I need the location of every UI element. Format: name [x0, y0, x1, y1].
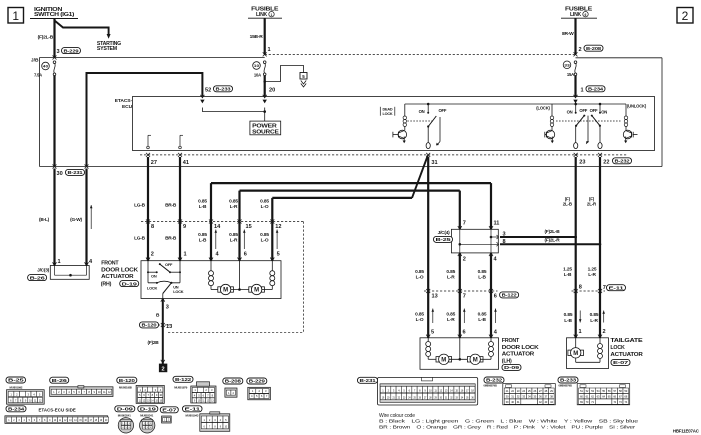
svg-text:30: 30: [57, 171, 63, 177]
svg-text:6: 6: [463, 329, 466, 335]
svg-text:D-09: D-09: [117, 407, 134, 413]
svg-text:M: M: [223, 288, 228, 294]
svg-text:7.5A: 7.5A: [34, 73, 42, 78]
svg-text:2: 2: [162, 366, 165, 372]
svg-text:ACTUATOR: ACTUATOR: [610, 352, 643, 358]
svg-text:J/C(4): J/C(4): [438, 230, 450, 236]
svg-text:B-233: B-233: [216, 87, 231, 93]
svg-text:L-B: L-B: [478, 275, 486, 281]
svg-text:MU801943: MU801943: [186, 414, 199, 418]
svg-text:L-B: L-B: [478, 317, 486, 323]
svg-text:31: 31: [431, 160, 437, 166]
svg-text:B : Black LG : Light green G: B : Black LG : Light green G : Green L :…: [379, 419, 639, 425]
svg-text:15A: 15A: [567, 72, 574, 77]
svg-text:BR-B: BR-B: [165, 202, 177, 208]
svg-text:LOCK: LOCK: [610, 345, 625, 351]
svg-text:3: 3: [166, 305, 169, 311]
svg-text:1: 1: [581, 88, 584, 94]
svg-text:40: 40: [43, 64, 49, 69]
svg-text:0.85: 0.85: [260, 232, 269, 238]
svg-text:MU801985: MU801985: [119, 385, 132, 389]
svg-text:2: 2: [463, 257, 466, 263]
svg-text:1.25: 1.25: [588, 266, 597, 272]
svg-text:MU801979: MU801979: [174, 386, 187, 390]
svg-text:MU801992: MU801992: [10, 385, 23, 389]
svg-text:(F)2L-B: (F)2L-B: [544, 229, 560, 235]
svg-text:14: 14: [214, 224, 221, 230]
svg-text:B-231: B-231: [68, 170, 83, 176]
svg-text:2: 2: [579, 47, 582, 53]
svg-text:LG-B: LG-B: [134, 235, 146, 241]
svg-text:LOCK: LOCK: [147, 285, 158, 290]
svg-text:TAILGATE: TAILGATE: [610, 338, 643, 344]
svg-text:ETACS-: ETACS-: [115, 98, 133, 104]
svg-text:LINK: LINK: [256, 12, 268, 18]
svg-text:L-R: L-R: [230, 204, 238, 210]
svg-text:0.85: 0.85: [478, 312, 487, 318]
svg-text:OFF: OFF: [439, 108, 447, 113]
svg-text:B-232: B-232: [486, 378, 502, 384]
svg-text:3: 3: [57, 49, 60, 55]
svg-text:1: 1: [268, 47, 271, 53]
svg-text:0.85: 0.85: [446, 312, 455, 318]
svg-text:0M806079B: 0M806079B: [559, 383, 572, 387]
svg-text:ETACS-ECU SIDE: ETACS-ECU SIDE: [39, 407, 76, 412]
svg-text:D-19: D-19: [140, 407, 157, 413]
svg-text:LINK: LINK: [570, 12, 582, 18]
svg-text:2: 2: [151, 251, 154, 257]
svg-text:B-26: B-26: [52, 378, 68, 384]
svg-text:1: 1: [579, 329, 582, 335]
svg-text:2L-B: 2L-B: [563, 202, 572, 207]
svg-text:Wire colour code: Wire colour code: [379, 413, 415, 419]
svg-text:B-122: B-122: [175, 377, 191, 383]
svg-text:15B-R: 15B-R: [250, 34, 264, 40]
svg-text:15: 15: [246, 224, 252, 230]
svg-text:ACTUATOR: ACTUATOR: [502, 352, 535, 358]
svg-text:L-B: L-B: [564, 272, 572, 278]
svg-text:BR-B: BR-B: [165, 235, 177, 241]
svg-text:E-07: E-07: [613, 360, 629, 366]
svg-text:0.85: 0.85: [198, 199, 207, 205]
svg-text:0.85: 0.85: [198, 232, 207, 238]
svg-text:0M806079B: 0M806079B: [484, 383, 497, 387]
svg-text:M: M: [573, 351, 578, 357]
svg-text:MU803541: MU803541: [118, 414, 131, 418]
svg-text:E-07: E-07: [162, 408, 177, 414]
svg-text:(G-W): (G-W): [70, 217, 82, 223]
svg-text:L-B: L-B: [199, 237, 207, 243]
svg-text:(B-L): (B-L): [39, 217, 50, 223]
svg-text:L-O: L-O: [261, 237, 269, 243]
svg-text:L-R: L-R: [447, 317, 455, 323]
svg-text:DOOR LOCK: DOOR LOCK: [101, 268, 138, 274]
svg-text:7: 7: [603, 285, 606, 291]
svg-text:HBF11E07AC: HBF11E07AC: [673, 428, 700, 433]
svg-text:BR : Brown O : Orange GR : G: BR : Brown O : Orange GR : Grey R : Red …: [379, 425, 636, 431]
svg-text:(F)2L-R: (F)2L-R: [544, 238, 560, 244]
svg-text:23: 23: [579, 160, 585, 166]
svg-text:B-26: B-26: [30, 275, 46, 281]
svg-text:FRONT: FRONT: [502, 338, 520, 344]
svg-text:1: 1: [271, 13, 273, 17]
svg-text:1: 1: [12, 9, 19, 23]
svg-text:22: 22: [603, 160, 609, 166]
svg-text:OFF: OFF: [579, 108, 587, 113]
svg-text:L-O: L-O: [416, 275, 424, 281]
svg-text:B-120: B-120: [142, 323, 157, 329]
svg-text:SYSTEM: SYSTEM: [97, 46, 117, 52]
svg-text:B-233: B-233: [560, 378, 576, 384]
svg-text:1: 1: [184, 251, 187, 257]
svg-text:6: 6: [585, 13, 587, 17]
svg-text:L-O: L-O: [261, 204, 269, 210]
svg-text:B-229: B-229: [249, 379, 265, 385]
svg-text:L-O: L-O: [416, 317, 424, 323]
svg-text:B-120: B-120: [119, 378, 135, 384]
svg-text:OFF: OFF: [590, 108, 598, 113]
svg-text:M: M: [254, 288, 259, 294]
svg-text:L-B: L-B: [199, 204, 207, 210]
svg-text:52: 52: [205, 88, 211, 94]
svg-text:5: 5: [277, 251, 280, 257]
svg-text:OFF: OFF: [165, 262, 173, 267]
svg-text:LOCK: LOCK: [173, 289, 184, 294]
svg-text:B-208: B-208: [225, 379, 241, 385]
svg-text:SWITCH (IG1): SWITCH (IG1): [34, 12, 75, 18]
svg-text:D-09: D-09: [504, 365, 520, 371]
svg-text:1.25: 1.25: [563, 266, 572, 272]
svg-text:6: 6: [494, 293, 497, 299]
svg-text:L-R: L-R: [447, 275, 455, 281]
svg-text:ON: ON: [601, 109, 607, 114]
svg-text:J/B: J/B: [31, 58, 39, 64]
svg-text:L-R: L-R: [230, 237, 238, 243]
svg-text:9: 9: [183, 224, 186, 230]
svg-text:B-232: B-232: [615, 159, 630, 165]
svg-text:7: 7: [463, 293, 466, 299]
svg-text:0.85: 0.85: [260, 199, 269, 205]
svg-text:ACTUATOR: ACTUATOR: [101, 274, 134, 280]
svg-text:0.85: 0.85: [478, 269, 487, 275]
svg-text:0.85: 0.85: [229, 232, 238, 238]
svg-text:LOCK: LOCK: [383, 112, 393, 116]
svg-text:0.85: 0.85: [446, 269, 455, 275]
svg-text:ON: ON: [419, 109, 425, 114]
svg-text:2L-R: 2L-R: [587, 202, 597, 207]
svg-text:M: M: [441, 358, 446, 364]
svg-text:B-234: B-234: [588, 87, 603, 93]
svg-text:B-122: B-122: [502, 293, 517, 299]
svg-text:POWER: POWER: [252, 124, 278, 130]
svg-text:0.85: 0.85: [415, 269, 424, 275]
svg-text:2: 2: [682, 9, 689, 23]
svg-text:(LOCK): (LOCK): [536, 106, 550, 111]
svg-text:10A: 10A: [254, 73, 261, 78]
svg-text:FRONT: FRONT: [101, 261, 119, 267]
svg-text:33: 33: [564, 63, 570, 68]
svg-text:MU803341: MU803341: [140, 414, 153, 418]
svg-text:10: 10: [254, 63, 260, 68]
svg-text:B-25: B-25: [436, 237, 452, 243]
svg-text:8R-W: 8R-W: [562, 31, 574, 37]
svg-text:M: M: [473, 358, 478, 364]
svg-text:L-B: L-B: [564, 318, 572, 324]
svg-text:11: 11: [494, 221, 500, 227]
svg-text:1: 1: [58, 259, 61, 265]
svg-text:41: 41: [183, 160, 189, 166]
svg-text:L-R: L-R: [590, 318, 598, 324]
svg-text:DOOR LOCK: DOOR LOCK: [502, 345, 539, 351]
svg-text:D-19: D-19: [122, 281, 138, 287]
svg-text:27: 27: [151, 160, 157, 166]
svg-text:E-11: E-11: [185, 407, 201, 413]
svg-text:ECU: ECU: [122, 104, 133, 110]
svg-text:J/C(3): J/C(3): [37, 268, 49, 274]
svg-text:(F)2B: (F)2B: [147, 340, 159, 346]
svg-text:13: 13: [166, 324, 172, 330]
svg-text:13: 13: [432, 293, 438, 299]
svg-text:2: 2: [603, 329, 606, 335]
svg-text:(UNLOCK): (UNLOCK): [627, 103, 647, 108]
svg-text:7: 7: [463, 221, 466, 227]
svg-text:B-25: B-25: [8, 378, 24, 384]
svg-text:L-R: L-R: [588, 272, 596, 278]
svg-text:B-231: B-231: [360, 378, 376, 384]
svg-text:E-11: E-11: [609, 285, 625, 291]
svg-text:ON: ON: [567, 109, 573, 114]
svg-text:B-234: B-234: [8, 407, 24, 413]
svg-text:12: 12: [275, 224, 281, 230]
svg-text:SOURCE: SOURCE: [252, 130, 279, 136]
svg-text:ON: ON: [151, 274, 157, 279]
svg-text:8: 8: [151, 224, 154, 230]
svg-text:8: 8: [579, 285, 582, 291]
svg-text:B-208: B-208: [586, 46, 601, 52]
svg-text:20: 20: [269, 88, 275, 94]
svg-text:B-229: B-229: [64, 48, 79, 54]
svg-text:0.85: 0.85: [564, 312, 573, 318]
svg-text:(LH): (LH): [502, 358, 512, 364]
svg-text:5: 5: [431, 329, 434, 335]
svg-text:(RH): (RH): [101, 281, 112, 287]
svg-text:6: 6: [244, 251, 247, 257]
svg-text:(F)2L-B: (F)2L-B: [38, 35, 54, 41]
svg-text:0.85: 0.85: [415, 312, 424, 318]
svg-text:0.85: 0.85: [229, 199, 238, 205]
svg-text:LG-B: LG-B: [134, 202, 146, 208]
svg-text:0.85: 0.85: [590, 312, 599, 318]
svg-text:B: B: [156, 313, 160, 319]
